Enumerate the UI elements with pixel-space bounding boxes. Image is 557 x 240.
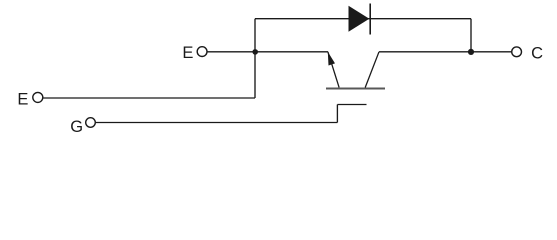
terminal E upper circle [197, 47, 207, 57]
node junction dot left [252, 49, 258, 55]
wire gate horizontal [96, 122, 338, 124]
IGBT Q1 channel bar [326, 87, 385, 89]
wire left vertical (E bus) [254, 19, 256, 98]
diode D1 cathode bar [369, 4, 371, 35]
wire top horizontal (diode rail) [255, 18, 471, 20]
IGBT Q1 collector slant [365, 52, 379, 88]
svg-text:C: C [531, 45, 543, 63]
IGBT Q1 gate electrode [337, 104, 366, 106]
wire upper E horizontal [207, 51, 328, 53]
svg-text:E: E [182, 44, 193, 62]
wire collector horizontal [379, 51, 511, 53]
terminal E lower circle [33, 92, 43, 102]
node junction dot right [468, 49, 474, 55]
terminal G circle [86, 118, 96, 128]
wire right vertical (C drop) [470, 19, 472, 52]
wire lower E horizontal [43, 97, 255, 99]
terminal C circle [512, 47, 522, 57]
diode D1 triangle [349, 6, 370, 32]
IGBT Q1 emitter arrow [328, 52, 335, 66]
IGBT Q1 emitter slant [328, 52, 339, 88]
svg-text:E: E [17, 91, 28, 109]
wire gate vertical [336, 105, 338, 123]
svg-text:G: G [70, 118, 83, 136]
